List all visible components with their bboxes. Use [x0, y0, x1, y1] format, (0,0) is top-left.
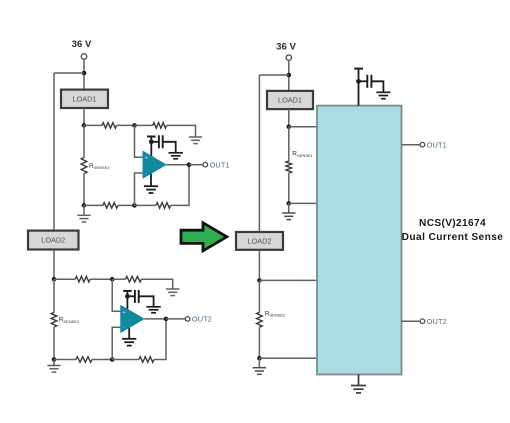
svg-text:LOAD1: LOAD1 — [278, 96, 302, 105]
resistor RSENSE1 (left) — [81, 158, 87, 174]
node RS2+ (right) — [257, 278, 262, 283]
wire to OUT2 terminal (left) — [166, 318, 185, 320]
supply tap T3 stem — [358, 69, 360, 82]
ground G4 (bottom-left stage1) — [77, 215, 90, 222]
terminal OUT2 (right) — [420, 319, 425, 324]
ground G3 (opamp1) — [144, 186, 158, 193]
wire Rsense2 bottom lead (right) — [258, 327, 260, 358]
wire LOAD2 to rail2 — [53, 250, 55, 280]
wire opamp2 +input — [112, 279, 120, 311]
wire 36V to LOAD1 — [83, 59, 85, 89]
wire V+ pin opamp2 — [126, 296, 128, 311]
svg-text:36 V: 36 V — [276, 42, 296, 53]
wire rail2 segment b — [90, 278, 112, 280]
ground G6 (bypass2) — [146, 307, 160, 313]
wire Rsense1 top lead (right) — [288, 127, 290, 161]
node opamp2 +input column — [110, 277, 115, 282]
wire LOAD1 to pin (right) — [288, 109, 290, 127]
svg-text:RSENSE1: RSENSE1 — [292, 151, 313, 158]
wire RS2+ to IC — [259, 279, 317, 281]
wire rail1b segment b — [118, 204, 135, 206]
node bypass C3 — [356, 79, 361, 84]
svg-text:+: + — [123, 310, 126, 316]
wire OUT2 pin (right) — [402, 320, 421, 322]
svg-text:OUT2: OUT2 — [427, 317, 447, 326]
arrow (transition) — [181, 223, 227, 251]
wire rail2b segment d — [154, 359, 166, 361]
wire RS2- to IC — [259, 357, 317, 359]
terminal OUT2 (left) — [185, 317, 190, 322]
wire Rsense1 top lead — [83, 125, 85, 157]
ground G8 stub — [53, 360, 55, 366]
resistor R2a (gain, stage2) — [75, 276, 90, 282]
wire 36V to LOAD1 (right) — [288, 60, 290, 91]
terminal 36V (left) — [81, 54, 86, 59]
ground G2 (bypass1) — [169, 153, 183, 159]
svg-text:LOAD2: LOAD2 — [41, 236, 65, 245]
wire C1 left lead — [151, 141, 159, 143]
svg-text:-: - — [123, 325, 125, 331]
resistor R2d (feedback, stage2) — [139, 357, 154, 363]
wire rail1b segment d — [171, 204, 189, 206]
load LOAD1 (right) — [267, 91, 313, 109]
svg-text:OUT1: OUT1 — [210, 160, 230, 169]
wire opamp1 -input — [135, 173, 143, 205]
capacitor C1 (bypass stage1) — [159, 135, 163, 148]
wire opamp2 -input — [112, 327, 120, 359]
wire opamp1 V- stub — [150, 173, 152, 186]
wire rail1 down to ground — [195, 125, 197, 137]
wire rail1 segment d — [167, 124, 196, 126]
ground G1 (rail1 right) — [189, 137, 202, 144]
node bypass C1 — [149, 139, 154, 144]
wire LOAD2 to pin (right) — [258, 250, 260, 281]
load LOAD2 (left) — [28, 231, 79, 250]
node supply branch (left) — [82, 71, 87, 76]
op-amp U1 (stage1) — [143, 151, 167, 179]
wire branch to LOAD2 rail (right) — [259, 74, 288, 76]
wire LOAD1 to sense node — [83, 108, 85, 125]
resistor R1c (stage1 bottom left) — [103, 203, 118, 209]
svg-text:LOAD2: LOAD2 — [248, 236, 272, 245]
node opamp2 -input column — [110, 357, 115, 362]
ground G5 (rail2 right) — [166, 289, 179, 296]
svg-text:OUT2: OUT2 — [192, 315, 212, 324]
supply tap T1 stem — [150, 137, 152, 142]
node sense2 top — [52, 277, 57, 282]
terminal OUT1 (right) — [420, 142, 425, 147]
ground GR2 stub — [258, 358, 260, 367]
wire Rsense2 top lead (right) — [258, 280, 260, 312]
wire rail1 segment a — [84, 124, 102, 126]
svg-text:LOAD1: LOAD1 — [73, 94, 97, 103]
wire opamp1 +input — [135, 125, 143, 157]
wire RS1- to IC — [289, 202, 317, 204]
wire rail2b segment c — [112, 359, 139, 361]
node RS1+ (right) — [287, 125, 292, 130]
wire V+ pin opamp1 — [150, 142, 152, 157]
wire opamp2 V- stub — [128, 328, 130, 339]
svg-text:+: + — [145, 156, 148, 162]
capacitor C2 (bypass stage2) — [135, 290, 139, 303]
wire rail1b segment a — [84, 204, 103, 206]
wire opamp2 output — [144, 318, 166, 320]
wire opamp1 output — [166, 164, 189, 166]
wire Rsense2 bottom lead — [53, 327, 55, 360]
wire C3 right lead — [371, 81, 383, 92]
wire LOAD2 rail down (right) — [258, 75, 260, 232]
node OUT2 junction (left) — [164, 317, 169, 322]
node RS2- (right) — [257, 356, 262, 361]
ground GR4 (IC) — [351, 386, 366, 393]
wire RS1+ to IC — [289, 126, 317, 128]
svg-text:OUT1: OUT1 — [427, 140, 447, 149]
node sense2 bottom — [52, 357, 57, 362]
load LOAD1 (left) — [61, 90, 108, 108]
wire feedback up to output node — [188, 165, 190, 206]
ground GR1 stub — [288, 203, 290, 213]
resistor R2c (stage2 bottom left) — [76, 357, 92, 363]
supply tap T3 bar — [354, 68, 363, 70]
wire rail1 segment c — [135, 124, 153, 126]
svg-text:RSENSE1: RSENSE1 — [89, 163, 110, 170]
wire Rsense1 bottom lead (right) — [288, 173, 290, 203]
resistor R1a (gain, stage1) — [102, 123, 117, 129]
wire rail1b segment c — [135, 204, 157, 206]
node sense1 top — [82, 123, 87, 128]
terminal OUT1 (left) — [203, 162, 208, 167]
node bypass C2 — [125, 294, 130, 299]
wire C2 left lead — [127, 295, 134, 297]
wire C2 right lead — [139, 296, 154, 307]
svg-text:-: - — [145, 171, 147, 177]
svg-text:RSENSE2: RSENSE2 — [265, 310, 286, 317]
supply tap T2 stem — [126, 291, 128, 296]
ground G7 (opamp2) — [122, 339, 136, 346]
wire branch to left rail — [54, 72, 84, 74]
wire left rail down to LOAD2 — [53, 73, 55, 231]
wire rail1 segment b — [117, 124, 135, 126]
supply tap T1 bar — [147, 136, 156, 138]
resistor RSENSE2 (left) — [51, 312, 57, 327]
ground GR2 (right sense2) — [253, 368, 266, 375]
op-amp U2 (stage2) — [121, 305, 145, 333]
wire Rsense1 bottom lead — [83, 174, 85, 206]
resistor R1b (stage1 to ground) — [153, 123, 167, 129]
node RS1- (right) — [287, 201, 292, 206]
wire rail2 down to ground — [172, 279, 174, 290]
node sense1 bottom — [82, 203, 87, 208]
ground G4 stub — [83, 205, 85, 215]
wire V+ pin IC — [358, 81, 360, 105]
resistor R1d (feedback, stage1) — [156, 203, 171, 209]
ground GR3 (IC bypass) — [376, 92, 390, 98]
resistor RSENSE1 (right) — [286, 161, 292, 173]
wire IC ground stub — [358, 375, 360, 386]
wire C3 left lead — [359, 80, 368, 82]
svg-text:RSENSE2: RSENSE2 — [59, 317, 80, 324]
node opamp1 +input column — [132, 123, 137, 128]
wire C1 right lead — [163, 142, 176, 153]
terminal 36V (right) — [286, 55, 291, 60]
supply tap T2 bar — [123, 290, 132, 292]
wire to OUT1 terminal (left) — [189, 164, 203, 166]
wire OUT1 pin (right) — [402, 144, 421, 146]
wire Rsense2 top lead — [53, 279, 55, 312]
resistor RSENSE2 (right) — [257, 312, 263, 327]
wire feedback2 up to output node — [165, 319, 167, 360]
node OUT1 junction (left) — [187, 162, 192, 167]
svg-text:Dual Current Sense: Dual Current Sense — [402, 232, 504, 243]
svg-text:36 V: 36 V — [72, 39, 92, 50]
svg-text:NCS(V)21674: NCS(V)21674 — [419, 218, 486, 229]
wire rail2 segment d — [141, 278, 172, 280]
wire rail2 segment a — [54, 278, 75, 280]
resistor R2b (stage2 to ground) — [126, 276, 142, 282]
wire rail2b segment b — [92, 359, 112, 361]
wire rail2 segment c — [112, 278, 125, 280]
IC U3 NCS(V)21674 — [317, 106, 402, 375]
ground G8 (bottom-left stage2) — [47, 366, 60, 373]
ground GR1 (right sense1) — [282, 213, 295, 220]
load LOAD2 (right) — [236, 232, 283, 250]
node opamp1 -input column — [132, 203, 137, 208]
node supply branch (right) — [287, 73, 292, 78]
wire rail2b segment a — [54, 359, 76, 361]
capacitor C3 (IC bypass) — [367, 75, 371, 88]
